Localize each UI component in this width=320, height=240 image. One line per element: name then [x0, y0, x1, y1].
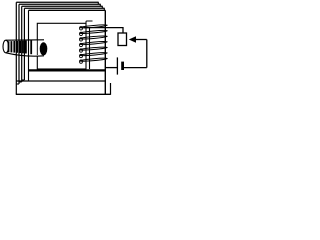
wire from secondary top to resistor	[84, 28, 124, 33]
battery long thin plate	[116, 57, 118, 74]
primary coil winding hatch turns	[9, 41, 32, 55]
resistor R	[118, 33, 127, 46]
primary coil left end cap	[3, 40, 9, 53]
core window right edge upper extension	[86, 21, 93, 24]
core lamination top-right corner staircase	[98, 2, 104, 11]
core front face right edge	[104, 10, 106, 94]
core lamination left edges over coil (stacked sheets)	[16, 2, 24, 94]
right vertical wire	[146, 40, 148, 68]
primary coil right end cap (dark)	[40, 42, 48, 55]
lamination bottom-left staircase feet	[17, 80, 25, 84]
core front-left edge over coil	[28, 39, 30, 57]
core window opening	[37, 23, 86, 69]
wire from battery to core/secondary bottom	[105, 67, 117, 69]
core window inner right lamination line	[89, 28, 91, 70]
base plate bottom edge	[16, 93, 111, 95]
primary coil bottom edge	[6, 53, 44, 56]
battery short thick plate	[121, 62, 124, 70]
base plate top edge	[16, 80, 105, 82]
core front face left edge	[28, 10, 30, 81]
base plate right edge	[110, 83, 112, 95]
secondary winding turns (spring around right limb)	[80, 24, 108, 62]
arrowhead pointing at resistor	[129, 36, 136, 42]
core bottom thick yoke line	[29, 69, 106, 71]
bottom wire from battery to right	[124, 67, 147, 69]
secondary winding left end curls	[80, 27, 83, 64]
core window left edge over coil	[36, 40, 38, 55]
primary coil top edge	[6, 39, 44, 41]
wire from arrow to right side	[136, 39, 147, 41]
primary coil cylinder body (white fill)	[6, 40, 44, 56]
core lamination top edges (5 stacked sheets)	[16, 2, 105, 10]
